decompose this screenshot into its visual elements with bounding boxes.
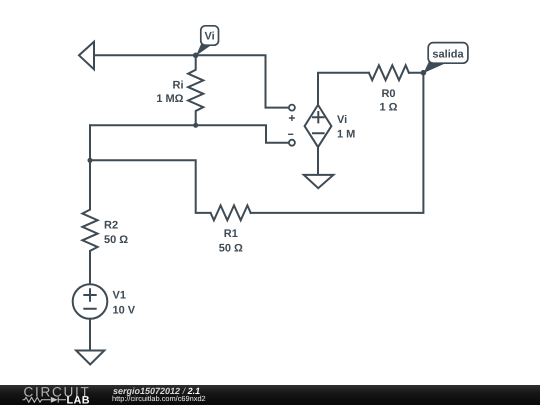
svg-text:V1: V1 bbox=[113, 290, 126, 302]
svg-text:R2: R2 bbox=[104, 220, 118, 232]
svg-text:R0: R0 bbox=[381, 88, 395, 100]
svg-text:1 M: 1 M bbox=[337, 128, 355, 140]
svg-text:50 Ω: 50 Ω bbox=[104, 234, 128, 246]
svg-text:Ri: Ri bbox=[173, 80, 184, 92]
svg-text:10 V: 10 V bbox=[113, 304, 136, 316]
svg-text:50 Ω: 50 Ω bbox=[219, 243, 243, 255]
svg-text:LAB: LAB bbox=[67, 394, 90, 405]
svg-text:1 Ω: 1 Ω bbox=[380, 101, 398, 113]
svg-text:Vi: Vi bbox=[337, 114, 347, 126]
svg-text:R1: R1 bbox=[224, 228, 238, 240]
svg-text:1 MΩ: 1 MΩ bbox=[156, 93, 183, 105]
svg-text:salida: salida bbox=[432, 49, 464, 61]
svg-text:Vi: Vi bbox=[204, 30, 214, 42]
